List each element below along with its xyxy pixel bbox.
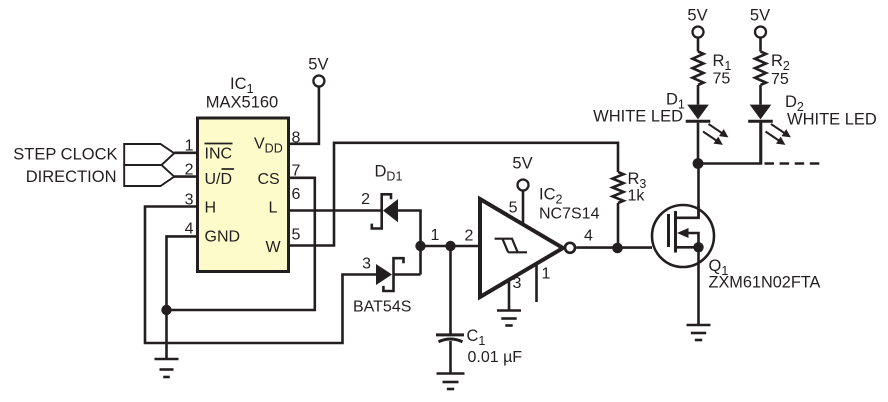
svg-text:5: 5 — [509, 200, 518, 217]
svg-text:75: 75 — [713, 71, 731, 88]
svg-text:75: 75 — [771, 71, 789, 88]
input tag DIRECTION — [26, 165, 174, 186]
wire GND junction to CS pin 7 — [167, 178, 315, 310]
5V terminal R2 — [750, 7, 770, 38]
svg-text:CS: CS — [258, 171, 280, 188]
wire IC2 pin 3 to ground — [508, 280, 511, 311]
svg-text:3: 3 — [362, 256, 371, 273]
svg-text:WHITE LED: WHITE LED — [787, 111, 877, 129]
diode DD1 (top Schottky, cathode left) — [372, 194, 398, 228]
D1 emission arrows — [701, 121, 731, 149]
svg-text:5V: 5V — [512, 155, 532, 173]
IC1 MAX5160 body — [198, 75, 289, 272]
svg-text:5V: 5V — [308, 56, 328, 74]
transistor Q1 ZXM61N02FTA — [652, 205, 714, 267]
IC1 pin label U/D (pin 2) — [205, 169, 235, 188]
op-amp IC2 NC7S14 triangle — [480, 199, 575, 297]
capacitor C1 — [436, 335, 464, 374]
IC1 pin label INC (pin 1) — [205, 144, 233, 163]
wire LED rail — [698, 123, 761, 164]
wire pin 3 H to BAT54S pin 3 — [145, 207, 376, 344]
svg-text:2: 2 — [361, 191, 370, 208]
wire IC2 output to Q1 gate — [576, 246, 652, 249]
wire BAT54S cathode to node — [394, 273, 421, 276]
svg-text:6: 6 — [292, 186, 301, 203]
svg-text:1: 1 — [542, 266, 551, 283]
ground C1 — [437, 374, 465, 390]
input tag STEP CLOCK — [13, 144, 174, 165]
LED D1 — [686, 105, 711, 164]
wire pin 4 GND to ground — [167, 236, 198, 359]
LED D2 — [748, 105, 773, 164]
D2 emission arrows — [763, 121, 793, 149]
IC2 pin 1 stub — [535, 264, 538, 302]
svg-text:5: 5 — [292, 227, 301, 244]
svg-text:L: L — [269, 200, 278, 217]
svg-text:DD1: DD1 — [375, 163, 403, 184]
svg-text:3: 3 — [513, 275, 522, 292]
junction GND node — [161, 305, 171, 315]
ground IC1 — [155, 359, 179, 377]
wire R2 to D2 — [759, 85, 762, 105]
svg-text:WHITE LED: WHITE LED — [593, 108, 683, 126]
svg-text:C1: C1 — [467, 327, 486, 348]
ground IC2 — [497, 311, 521, 326]
junction C1 node — [445, 241, 455, 251]
wire DD1 anode to node 1 — [398, 211, 421, 275]
wire IC2 pin 5 to 5V — [522, 191, 525, 225]
svg-text:INC: INC — [205, 146, 233, 163]
svg-text:STEP CLOCK: STEP CLOCK — [13, 146, 117, 164]
resistor R1 — [693, 52, 704, 86]
node 1 wire to IC2 input — [421, 245, 481, 248]
resistor R2 — [755, 52, 766, 86]
svg-text:5V: 5V — [750, 7, 770, 25]
svg-text:R2: R2 — [771, 52, 790, 73]
junction drain node — [693, 158, 704, 169]
svg-text:BAT54S: BAT54S — [353, 299, 411, 316]
svg-text:ZXM61N02FTA: ZXM61N02FTA — [709, 274, 821, 292]
svg-text:5V: 5V — [687, 7, 707, 25]
svg-text:MAX5160: MAX5160 — [206, 94, 278, 112]
wire Q1 drain up to LED rail — [697, 164, 700, 218]
wire 5V to R1 — [697, 38, 700, 52]
wire pin 5 W up over to R3 — [289, 143, 619, 246]
svg-text:1k: 1k — [628, 188, 646, 205]
ground Q1 — [687, 325, 711, 340]
svg-text:4: 4 — [584, 228, 593, 245]
wire pin 8 VDD to 5V — [289, 87, 319, 144]
wire R1 to D1 — [697, 85, 700, 105]
wire Q1 source to ground — [697, 247, 700, 325]
svg-text:NC7S14: NC7S14 — [539, 206, 600, 223]
svg-text:GND: GND — [205, 229, 241, 246]
resistor R3 — [613, 172, 624, 248]
svg-text:U/D: U/D — [205, 171, 233, 188]
wire tag to pin 2 — [174, 175, 197, 178]
junction node 1 — [415, 241, 425, 251]
diode BAT54S bottom (anode left) — [376, 258, 404, 291]
svg-text:H: H — [205, 200, 217, 217]
svg-text:0.01 µF: 0.01 µF — [468, 349, 523, 366]
junction R3 output node — [612, 243, 623, 254]
svg-text:IC2: IC2 — [539, 186, 563, 207]
svg-text:2: 2 — [465, 228, 474, 245]
svg-text:W: W — [266, 239, 282, 256]
5V terminal IC1 — [308, 56, 328, 87]
5V terminal R1 — [687, 7, 707, 38]
wire 5V to R2 — [759, 38, 762, 52]
5V terminal IC2 — [512, 155, 532, 191]
svg-text:1: 1 — [431, 227, 440, 244]
wire pin 6 L to diode DD1 — [289, 209, 382, 212]
svg-text:4: 4 — [185, 221, 194, 238]
dashed extension wire — [765, 162, 821, 165]
wire node to C1 — [449, 246, 452, 334]
svg-text:DIRECTION: DIRECTION — [26, 168, 117, 186]
wire tag to pin 1 — [174, 152, 197, 155]
